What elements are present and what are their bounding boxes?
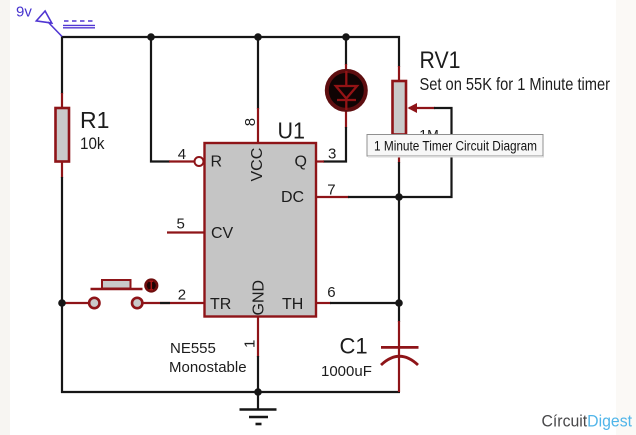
junction DC node (395, 193, 403, 201)
wire LED bottom red stub (345, 109, 347, 128)
ground symbol (240, 392, 277, 424)
wire button branch red (62, 302, 90, 304)
svg-text:3: 3 (328, 146, 336, 163)
right edge page strip (616, 0, 636, 435)
wire LED top red stub (345, 64, 347, 72)
svg-text:1000uF: 1000uF (321, 363, 372, 380)
junction top rail LED (342, 33, 350, 41)
push button cap (102, 280, 131, 289)
battery 9v dashed line (64, 20, 95, 22)
wire CV pin5 stub (167, 231, 205, 233)
wire pin6 red stub (316, 302, 331, 304)
wire pin2 black dash (160, 302, 170, 304)
wire pin7 red stub (316, 196, 349, 198)
svg-text:10k: 10k (80, 134, 105, 153)
junction ground (254, 388, 262, 396)
svg-text:NE555: NE555 (170, 340, 216, 357)
wire pin6 to junction black (330, 302, 400, 304)
battery 9v flag triangle (36, 11, 62, 37)
pin4 inversion bubble (195, 157, 204, 166)
wire left rail upper (61, 36, 63, 94)
wire R1 top lead (61, 93, 63, 110)
svg-text:2: 2 (178, 287, 186, 304)
left edge page strip (0, 0, 10, 435)
push button state badge (146, 280, 158, 292)
push button cap bar (91, 288, 143, 290)
svg-text:CírcuitDigest: CírcuitDigest (542, 412, 633, 431)
wire RV1 top red stub (398, 66, 400, 82)
wire VCC pin8 drop black (257, 36, 259, 109)
svg-text:TR: TR (210, 296, 231, 313)
LED diode symbol (336, 71, 357, 110)
junction TH node (395, 299, 403, 307)
IC U1 body NE555 (205, 143, 317, 317)
wire RV1 bottom to junction black (398, 162, 400, 198)
wire pin4 red stub (169, 160, 195, 162)
wire RV1 wiper return black (400, 108, 452, 197)
wire C1 top red lead (398, 321, 400, 392)
svg-text:U1: U1 (278, 118, 306, 144)
svg-text:6: 6 (327, 284, 335, 301)
capacitor C1 curved plate (381, 356, 418, 365)
svg-text:DC: DC (281, 189, 304, 206)
wire pin7 to junction black (348, 196, 400, 198)
svg-text:9v: 9v (16, 4, 32, 21)
svg-text:TH: TH (282, 296, 303, 313)
svg-text:RV1: RV1 (420, 47, 461, 74)
svg-text:4: 4 (178, 146, 186, 163)
wire left rail lower (61, 177, 63, 393)
wire pin4 branch vertical (151, 37, 170, 162)
junction button branch (58, 299, 66, 307)
svg-text:5: 5 (177, 215, 185, 232)
wire pin1 GND black lead (257, 356, 259, 393)
svg-text:R: R (211, 153, 223, 170)
wire C1 top lead black (398, 302, 400, 322)
wire R1 bottom lead (61, 160, 63, 178)
wire LED top black (345, 36, 347, 65)
svg-text:C1: C1 (340, 334, 368, 359)
svg-text:Set on 55K for 1 Minute timer: Set on 55K for 1 Minute timer (420, 74, 611, 94)
svg-text:8: 8 (242, 118, 259, 126)
svg-text:1 Minute Timer Circuit Diagram: 1 Minute Timer Circuit Diagram (374, 139, 537, 154)
capacitor C1 top plate (381, 346, 419, 349)
wire pin3 red stub (316, 160, 324, 162)
potentiometer RV1 body (393, 81, 407, 135)
battery 9v solid lines (63, 24, 95, 26)
svg-text:GND: GND (251, 280, 268, 316)
wire bottom rail (61, 391, 400, 393)
svg-text:Q: Q (295, 153, 307, 170)
junction top rail pin8 (254, 33, 262, 41)
resistor R1 body (56, 108, 70, 162)
CircuitDigest logo (542, 412, 633, 431)
LED outer circle (327, 71, 366, 110)
svg-text:R1: R1 (80, 107, 109, 133)
wire LED to pin3 black (323, 127, 346, 162)
junction top rail pin4 (147, 33, 155, 41)
push button right terminal (132, 298, 142, 308)
wire button to pin2 red (142, 302, 205, 304)
tooltip box (367, 135, 544, 158)
svg-text:Monostable: Monostable (169, 359, 247, 376)
svg-text:VCC: VCC (249, 148, 266, 182)
wire top rail (61, 36, 400, 38)
svg-text:1: 1 (242, 340, 259, 348)
wire pin1 GND red lead (257, 316, 259, 357)
wire RV1 top lead black (398, 36, 400, 67)
svg-text:7: 7 (327, 182, 335, 199)
wire RV1 wiper red (409, 107, 435, 109)
wire right vertical DC to TH (398, 196, 400, 304)
push button left terminal (89, 298, 99, 308)
svg-text:CV: CV (211, 225, 234, 242)
wire RV1 bottom red stub (398, 134, 400, 163)
wire VCC pin8 red stub (257, 108, 259, 144)
potentiometer RV1 wiper arrow head (408, 103, 418, 113)
